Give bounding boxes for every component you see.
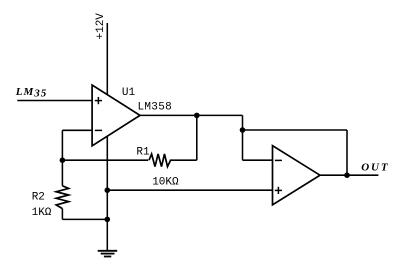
- wire +12V supply down through U1 to ground: [106, 23, 108, 251]
- resistor R2: [56, 186, 68, 209]
- op-amp U1: [92, 85, 140, 146]
- junction node U2 input/feedback: [240, 127, 246, 133]
- wire R2 bottom to ground wire: [61, 209, 63, 220]
- wire U1 - input down to feedback node: [61, 130, 63, 160]
- wire feedback left segment to R1: [62, 159, 148, 161]
- wire LM35 input to U1 +: [17, 100, 92, 102]
- op-amp U2 plus pin: [275, 187, 282, 194]
- resistor R1: [149, 154, 171, 167]
- op-amp U2 minus pin: [275, 159, 282, 161]
- svg-text:LM358: LM358: [138, 102, 173, 114]
- junction node U2 output: [344, 172, 350, 178]
- op-amp U1 minus pin: [95, 129, 102, 131]
- svg-text:1KΩ: 1KΩ: [32, 207, 52, 219]
- junction node R2/feedback: [60, 157, 66, 163]
- svg-text:R2: R2: [32, 192, 45, 204]
- wire R1 right segment: [170, 159, 197, 161]
- wire to U2 - input: [243, 159, 273, 161]
- wire R2 top lead: [61, 160, 63, 186]
- wire U2 feedback down to output: [346, 130, 348, 175]
- wire U1 - input horizontal: [62, 129, 92, 131]
- wire output corner down: [242, 115, 244, 160]
- wire U2 output to OUT: [320, 174, 378, 176]
- junction node U1 output/feedback: [194, 113, 200, 119]
- wire U2 + input horizontal: [107, 189, 272, 191]
- svg-text:U1: U1: [122, 87, 136, 99]
- junction node R2 bottom/ground wire: [105, 217, 111, 223]
- ground: [98, 251, 118, 257]
- junction node U2 + tap: [105, 187, 111, 193]
- svg-text:+12V: +12V: [95, 13, 107, 40]
- svg-text:10KΩ: 10KΩ: [152, 177, 179, 189]
- svg-text:OUT: OUT: [361, 161, 389, 173]
- op-amp U2: [273, 146, 321, 205]
- wire U1 output horizontal: [140, 114, 243, 116]
- op-amp U1 plus pin: [95, 97, 102, 104]
- wire feedback drop from output node: [196, 115, 198, 160]
- svg-text:R1: R1: [136, 146, 150, 158]
- wire node to U2 feedback top: [243, 129, 348, 131]
- svg-text:LM35: LM35: [15, 86, 48, 99]
